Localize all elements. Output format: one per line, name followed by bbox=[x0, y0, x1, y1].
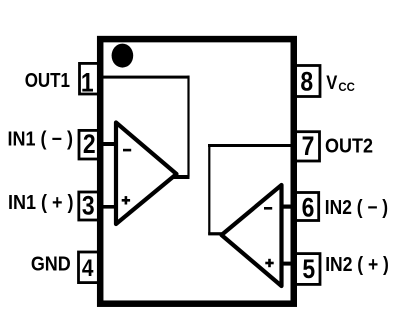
wire: pin 3 to U1A non-inverting input bbox=[100, 205, 116, 209]
wire: pin 1 feedback vertical segment bbox=[187, 76, 189, 177]
pin 2 box bbox=[79, 130, 103, 159]
svg-text:IN2 ( − ): IN2 ( − ) bbox=[325, 196, 388, 218]
svg-text:OUT2: OUT2 bbox=[325, 135, 373, 157]
label VCC bbox=[326, 72, 355, 94]
wire: pin 2 to U1A inverting input bbox=[100, 142, 116, 146]
wire: pin 5 to U1B non-inverting input bbox=[280, 262, 294, 266]
svg-text:6: 6 bbox=[302, 193, 315, 223]
wire: op-amp U1A output stub bbox=[172, 175, 190, 179]
svg-text:GND: GND bbox=[31, 254, 71, 276]
pin 5 box bbox=[292, 254, 320, 285]
svg-text:IN1 ( − ): IN1 ( − ) bbox=[8, 129, 73, 151]
pin 7 box bbox=[292, 132, 320, 161]
svg-text:5: 5 bbox=[302, 254, 315, 284]
wire: op-amp U1B output stub bbox=[208, 232, 223, 235]
svg-text:V: V bbox=[326, 72, 337, 94]
wire: pin 7 vertical segment bbox=[208, 144, 210, 235]
svg-text:OUT1: OUT1 bbox=[25, 69, 70, 92]
pin 4 box bbox=[79, 252, 103, 283]
IC body U1 bbox=[100, 39, 294, 304]
op-amp U1A inverting input marker (-) bbox=[123, 149, 131, 152]
wire: pin 1 feedback top segment bbox=[100, 76, 190, 79]
op-amp U1B non-inverting input marker (+) bbox=[265, 259, 273, 267]
pin 3 box bbox=[79, 192, 103, 220]
op-amp U1B inverting input marker (-) bbox=[264, 207, 272, 210]
wire: pin 6 to U1B inverting input bbox=[280, 205, 294, 209]
op-amp U1B triangle bbox=[222, 185, 282, 286]
pin 8 box bbox=[292, 66, 320, 97]
pin 6 box bbox=[292, 193, 319, 221]
svg-text:2: 2 bbox=[83, 129, 96, 159]
svg-text:8: 8 bbox=[300, 67, 313, 97]
svg-text:7: 7 bbox=[302, 131, 315, 161]
svg-text:IN1 ( + ): IN1 ( + ) bbox=[8, 192, 73, 214]
svg-text:IN2 ( + ): IN2 ( + ) bbox=[325, 253, 389, 275]
op-amp U1A triangle bbox=[116, 123, 177, 225]
pin 1 box bbox=[80, 63, 104, 94]
svg-text:1: 1 bbox=[81, 68, 94, 98]
svg-text:4: 4 bbox=[82, 254, 94, 282]
pin 1 orientation dot bbox=[112, 44, 134, 68]
op-amp U1A non-inverting input marker (+) bbox=[122, 196, 130, 204]
svg-text:CC: CC bbox=[338, 81, 355, 94]
wire: pin 7 horizontal segment bbox=[208, 144, 294, 147]
svg-text:3: 3 bbox=[82, 191, 95, 221]
